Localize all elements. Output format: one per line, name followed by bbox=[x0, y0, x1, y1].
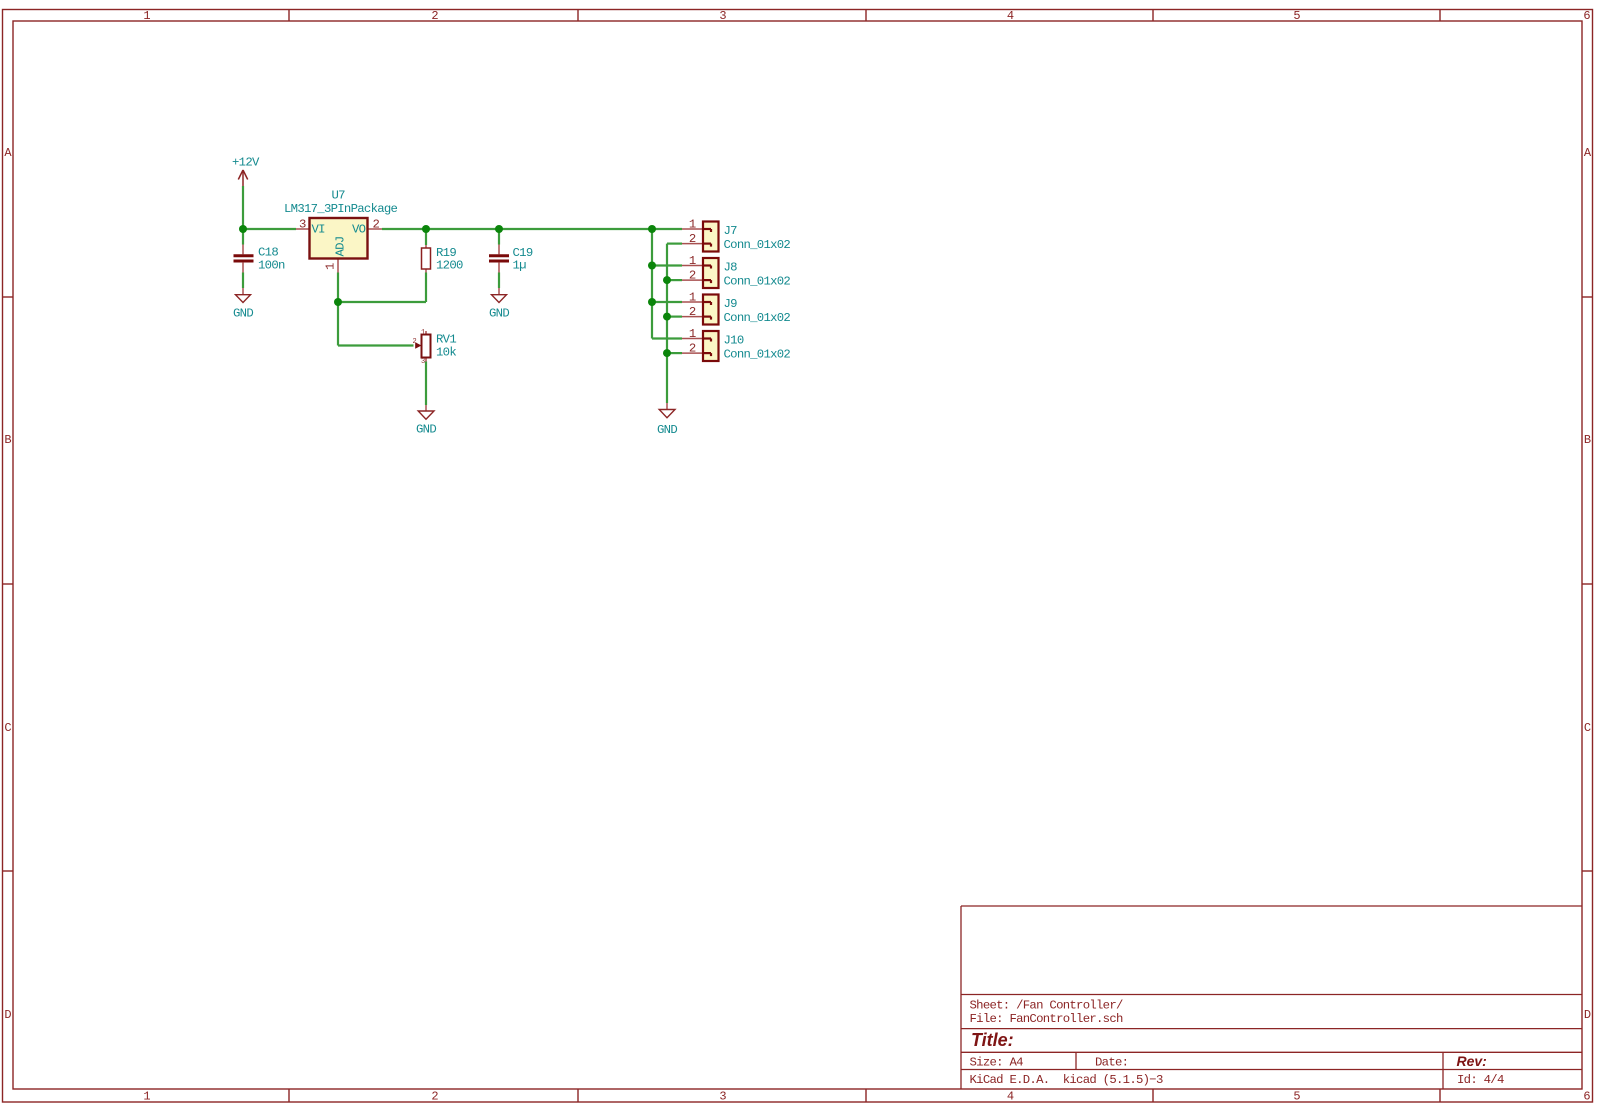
svg-text:GND: GND bbox=[416, 423, 436, 437]
svg-text:+12V: +12V bbox=[232, 156, 260, 170]
svg-text:1: 1 bbox=[689, 218, 696, 232]
svg-text:File: FanController.sch: File: FanController.sch bbox=[970, 1012, 1124, 1026]
svg-text:GND: GND bbox=[233, 307, 253, 321]
svg-text:Rev:: Rev: bbox=[1457, 1053, 1487, 1069]
svg-text:3: 3 bbox=[421, 358, 425, 366]
svg-text:1: 1 bbox=[689, 291, 696, 305]
svg-text:Conn_01x02: Conn_01x02 bbox=[724, 348, 791, 362]
svg-text:ADJ: ADJ bbox=[334, 237, 348, 257]
svg-text:4: 4 bbox=[1007, 9, 1014, 23]
svg-text:Date:: Date: bbox=[1095, 1056, 1128, 1070]
svg-text:2: 2 bbox=[431, 9, 438, 23]
svg-text:1: 1 bbox=[689, 327, 696, 341]
svg-text:D: D bbox=[4, 1008, 11, 1022]
svg-text:6: 6 bbox=[1583, 9, 1590, 23]
svg-text:3: 3 bbox=[299, 218, 306, 232]
svg-text:C: C bbox=[4, 721, 11, 735]
svg-text:5: 5 bbox=[1293, 1090, 1300, 1104]
svg-text:Conn_01x02: Conn_01x02 bbox=[724, 275, 791, 289]
svg-text:J10: J10 bbox=[724, 334, 744, 348]
svg-text:A: A bbox=[1584, 146, 1592, 160]
svg-text:VO: VO bbox=[352, 223, 366, 237]
svg-text:2: 2 bbox=[689, 269, 696, 283]
svg-text:Sheet: /Fan Controller/: Sheet: /Fan Controller/ bbox=[970, 999, 1124, 1013]
svg-text:1: 1 bbox=[143, 1090, 150, 1104]
svg-text:J9: J9 bbox=[724, 297, 738, 311]
svg-text:1: 1 bbox=[143, 9, 150, 23]
svg-text:2: 2 bbox=[689, 232, 696, 246]
svg-text:3: 3 bbox=[719, 9, 726, 23]
svg-text:2: 2 bbox=[689, 342, 696, 356]
svg-text:1: 1 bbox=[324, 263, 338, 270]
svg-text:GND: GND bbox=[657, 423, 677, 437]
svg-text:Title:: Title: bbox=[971, 1030, 1014, 1050]
svg-text:C18: C18 bbox=[258, 246, 278, 260]
svg-text:KiCad E.D.A. kicad (5.1.5)−3: KiCad E.D.A. kicad (5.1.5)−3 bbox=[970, 1073, 1163, 1087]
svg-text:5: 5 bbox=[1293, 9, 1300, 23]
svg-text:GND: GND bbox=[489, 307, 509, 321]
svg-text:RV1: RV1 bbox=[436, 333, 456, 347]
svg-text:D: D bbox=[1584, 1008, 1591, 1022]
svg-text:Conn_01x02: Conn_01x02 bbox=[724, 311, 791, 325]
svg-text:10k: 10k bbox=[436, 346, 456, 360]
svg-text:VI: VI bbox=[312, 223, 326, 237]
svg-text:2: 2 bbox=[373, 218, 380, 232]
svg-text:6: 6 bbox=[1583, 1090, 1590, 1104]
svg-text:100n: 100n bbox=[258, 259, 285, 273]
svg-text:1: 1 bbox=[689, 254, 696, 268]
svg-text:4: 4 bbox=[1007, 1090, 1014, 1104]
svg-text:2: 2 bbox=[413, 338, 417, 346]
svg-text:1: 1 bbox=[421, 329, 425, 337]
svg-text:Conn_01x02: Conn_01x02 bbox=[724, 238, 791, 252]
svg-text:1200: 1200 bbox=[436, 259, 463, 273]
svg-text:U7: U7 bbox=[332, 189, 346, 203]
svg-text:3: 3 bbox=[719, 1090, 726, 1104]
svg-text:B: B bbox=[4, 433, 11, 447]
svg-text:B: B bbox=[1584, 433, 1591, 447]
svg-text:LM317_3PInPackage: LM317_3PInPackage bbox=[284, 202, 398, 216]
svg-text:J8: J8 bbox=[724, 261, 738, 275]
svg-text:Size: A4: Size: A4 bbox=[970, 1056, 1024, 1070]
svg-text:A: A bbox=[4, 146, 12, 160]
svg-text:2: 2 bbox=[689, 305, 696, 319]
svg-text:1µ: 1µ bbox=[513, 259, 527, 273]
svg-text:Id: 4/4: Id: 4/4 bbox=[1457, 1073, 1504, 1087]
svg-text:C: C bbox=[1584, 721, 1591, 735]
svg-text:J7: J7 bbox=[724, 224, 738, 238]
svg-text:2: 2 bbox=[431, 1090, 438, 1104]
